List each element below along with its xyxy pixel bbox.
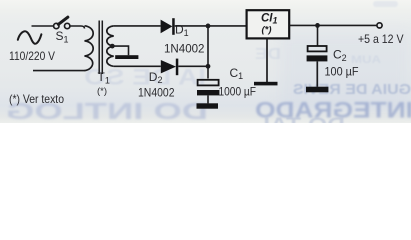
wire center tap	[112, 46, 128, 55]
regulator ground pin	[266, 39, 268, 82]
wire vertical to C2	[317, 25, 319, 46]
wire D2 to junction	[178, 65, 208, 67]
svg-text:T1: T1	[98, 70, 110, 85]
ground CI1	[254, 82, 278, 86]
ground C1	[197, 103, 219, 108]
capacitor C2	[307, 46, 328, 87]
svg-text:1N4002: 1N4002	[138, 86, 175, 100]
svg-text:100 µF: 100 µF	[325, 65, 359, 79]
svg-text:(*): (*)	[262, 24, 272, 35]
capacitor C1	[197, 80, 219, 104]
node junction D2	[206, 64, 211, 69]
svg-text:C2: C2	[333, 48, 347, 63]
transformer T1	[85, 21, 114, 75]
ground C2	[306, 87, 328, 93]
svg-text:110/220 V: 110/220 V	[9, 49, 55, 63]
switch S1	[54, 17, 70, 28]
diode D1	[161, 18, 175, 35]
svg-text:+5 a 12 V: +5 a 12 V	[358, 32, 404, 46]
wire	[114, 25, 161, 27]
wire bottom return	[33, 70, 85, 72]
svg-text:(*): (*)	[97, 86, 107, 97]
svg-text:D1: D1	[175, 23, 189, 38]
svg-text:D2: D2	[149, 70, 163, 85]
IC regulator CI1	[247, 10, 290, 38]
wire	[32, 25, 54, 27]
AC source	[18, 31, 42, 43]
svg-text:1N4002: 1N4002	[164, 42, 205, 56]
wire output	[289, 24, 376, 26]
node center tap	[110, 44, 115, 49]
diode D2	[161, 59, 179, 76]
svg-text:1000 µF: 1000 µF	[219, 84, 257, 98]
node junction output	[315, 23, 320, 28]
wire vertical to C1	[207, 26, 209, 79]
terminal output	[377, 23, 382, 28]
node junction top	[206, 24, 211, 29]
wire	[70, 26, 85, 29]
wire	[175, 25, 247, 27]
wire secondary bottom to D2	[114, 65, 161, 67]
svg-text:C1: C1	[230, 66, 244, 81]
svg-text:(*) Ver texto: (*) Ver texto	[9, 92, 64, 106]
svg-text:S1: S1	[56, 29, 69, 44]
ground center tap	[115, 55, 138, 59]
